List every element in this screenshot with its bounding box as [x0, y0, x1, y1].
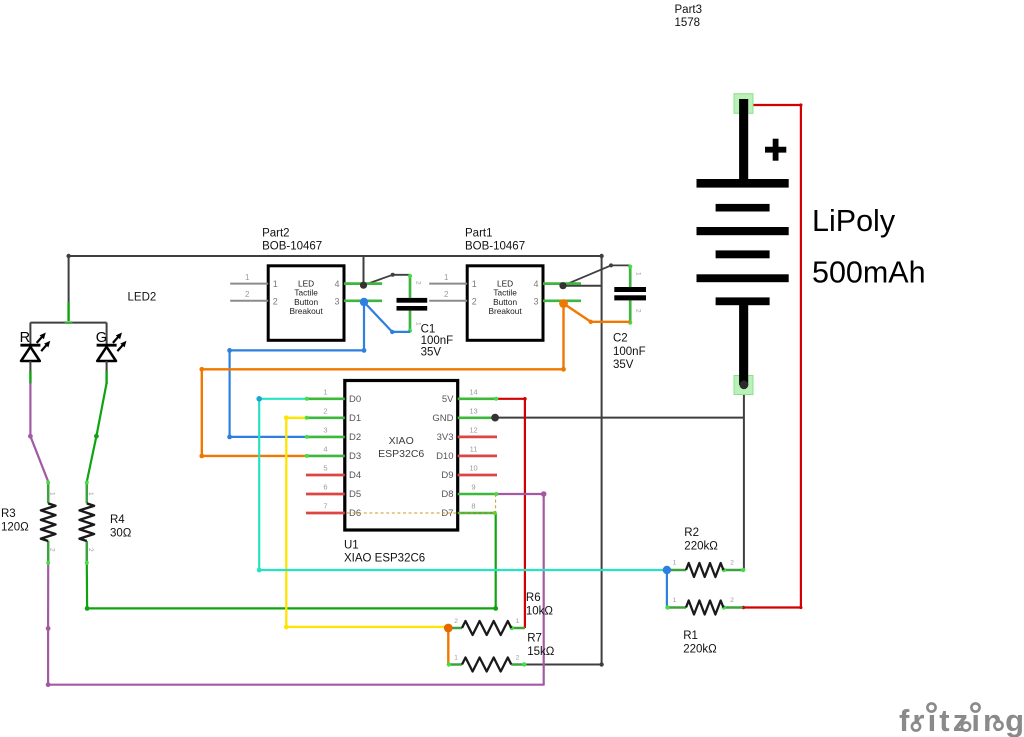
svg-text:R4: R4 [110, 514, 125, 526]
wire battery minus down to R2 pin2 [743, 385, 745, 570]
junction GND wire [491, 414, 499, 422]
pin 4 D3 [305, 444, 361, 462]
svg-text:2: 2 [454, 618, 458, 625]
battery BAT1 positive pad [734, 94, 753, 114]
junction R2 pin1 blue [663, 566, 671, 574]
svg-text:D10: D10 [436, 451, 453, 462]
svg-text:D8: D8 [441, 489, 453, 500]
svg-text:2: 2 [730, 560, 734, 567]
svg-text:Part2: Part2 [262, 228, 290, 240]
svg-text:R1: R1 [683, 630, 698, 642]
wire LED G stub [106, 323, 108, 345]
junction cyan bend [256, 396, 262, 402]
svg-text:U1: U1 [344, 540, 359, 552]
svg-text:2: 2 [323, 406, 327, 415]
svg-text:4: 4 [533, 279, 538, 289]
svg-text:R6: R6 [526, 592, 541, 604]
resistor R1 [665, 597, 743, 615]
svg-text:15kΩ: 15kΩ [527, 646, 555, 658]
svg-text:Breakout: Breakout [488, 306, 522, 316]
svg-text:3: 3 [323, 425, 327, 434]
pin 6 D5 [306, 483, 361, 501]
LED G anode stub [106, 361, 108, 372]
svg-text:9: 9 [471, 483, 475, 492]
svg-text:2: 2 [730, 597, 734, 604]
svg-text:D7: D7 [441, 508, 453, 519]
svg-text:Breakout: Breakout [289, 306, 323, 316]
pin 14 5V [442, 387, 498, 405]
breakout Part1 BOB-10467 [429, 266, 581, 341]
svg-text:1578: 1578 [675, 17, 701, 29]
svg-text:8: 8 [471, 502, 475, 511]
svg-text:C1: C1 [421, 324, 436, 336]
svg-text:2: 2 [444, 290, 449, 299]
svg-text:30Ω: 30Ω [110, 528, 132, 540]
pin 3 D2 [305, 425, 361, 443]
svg-text:D3: D3 [349, 451, 361, 462]
svg-text:ESP32C6: ESP32C6 [378, 448, 424, 460]
svg-text:2: 2 [516, 655, 520, 662]
svg-text:D9: D9 [441, 470, 453, 481]
resistor R7 [447, 655, 527, 672]
svg-text:R7: R7 [527, 633, 542, 645]
svg-text:BOB-10467: BOB-10467 [262, 241, 322, 253]
wire battery plus red [743, 105, 801, 608]
LED2 red element R [20, 330, 51, 361]
wire D0 to R2 cyan [259, 399, 667, 570]
pin 11 D10 [436, 444, 497, 462]
svg-text:2: 2 [415, 281, 422, 285]
resistor R2 [667, 560, 746, 578]
battery bottom junction [740, 380, 749, 389]
svg-text:1: 1 [87, 492, 94, 496]
svg-text:2: 2 [472, 296, 477, 306]
svg-text:1: 1 [323, 387, 327, 396]
svg-text:10kΩ: 10kΩ [526, 606, 554, 618]
svg-text:fritzing: fritzing [899, 703, 1024, 737]
svg-text:500mAh: 500mAh [812, 256, 926, 290]
svg-text:5V: 5V [442, 394, 454, 405]
wire top rail [69, 255, 602, 257]
svg-text:6: 6 [323, 483, 327, 492]
svg-text:G: G [96, 330, 107, 346]
pin 1 D0 [305, 387, 361, 405]
svg-text:XIAO: XIAO [389, 435, 414, 447]
wire Part1 pin4 to rail [563, 285, 602, 287]
pin 5 D4 [306, 464, 361, 482]
svg-text:1: 1 [673, 597, 677, 604]
svg-text:2: 2 [273, 296, 278, 306]
svg-text:11: 11 [470, 444, 478, 453]
svg-text:3V3: 3V3 [437, 432, 454, 443]
svg-text:35V: 35V [421, 347, 442, 359]
pin 7 D6 [306, 502, 361, 520]
svg-text:2: 2 [635, 309, 642, 313]
battery plus sign [765, 147, 786, 153]
capacitor C1 [397, 274, 428, 333]
svg-text:Part1: Part1 [465, 228, 493, 240]
svg-text:14: 14 [469, 387, 477, 396]
wire Part2 pin4 to C1 pin2 [364, 275, 411, 285]
svg-text:1: 1 [673, 560, 677, 567]
wire 5V to R6 red [497, 399, 525, 628]
wire Part1 pin4 to C2 pin1 [563, 265, 630, 285]
wire LED2 crossbar [30, 322, 106, 324]
wire Part1 pin3 to C2 orange [564, 304, 631, 322]
svg-text:4: 4 [323, 444, 327, 453]
junction Part2 pin4 [360, 282, 367, 289]
resistor R6 [448, 618, 525, 635]
svg-text:1: 1 [273, 279, 278, 289]
svg-text:BOB-10467: BOB-10467 [465, 241, 525, 253]
pin 10 D9 [441, 464, 497, 482]
battery BAT1 negative pad [734, 376, 753, 395]
svg-text:2: 2 [49, 548, 56, 552]
resistor R3 [41, 481, 56, 565]
junction R6 pin2 [444, 624, 453, 633]
svg-text:1: 1 [454, 655, 458, 662]
svg-text:D5: D5 [349, 489, 361, 500]
svg-text:R: R [20, 330, 30, 346]
svg-text:120Ω: 120Ω [1, 522, 29, 534]
wire D1 to R6 yellow [286, 418, 448, 627]
pin 2 D1 [305, 406, 361, 424]
svg-text:35V: 35V [613, 359, 634, 371]
pin 8 D7 [441, 502, 496, 520]
wire Part1 pin3 to D3 orange [202, 304, 564, 456]
svg-text:12: 12 [469, 425, 477, 434]
wire Part2 pin3 to D2 blue [230, 302, 364, 437]
svg-text:10: 10 [469, 464, 477, 473]
LED2 green element G [96, 330, 127, 361]
svg-text:GND: GND [432, 413, 453, 424]
wire Part2 pin3 to C1 blue [364, 302, 410, 332]
wire R7 pin2 to rail [525, 664, 602, 666]
svg-text:220kΩ: 220kΩ [683, 644, 717, 656]
resistor R4 [80, 481, 95, 565]
junction Part1 pin3 orange [559, 299, 568, 308]
svg-text:7: 7 [323, 502, 327, 511]
svg-text:1: 1 [245, 273, 250, 282]
svg-text:220kΩ: 220kΩ [684, 541, 718, 553]
wire right vertical rail [601, 256, 603, 665]
svg-text:4: 4 [334, 279, 339, 289]
wire D8 to R3 purple loop [48, 494, 544, 685]
svg-text:D0: D0 [349, 394, 361, 405]
pin 12 3V3 [437, 425, 497, 443]
pin 9 D8 [441, 483, 498, 501]
svg-text:100nF: 100nF [613, 346, 646, 358]
wire GND to battery minus [495, 417, 744, 419]
svg-text:2: 2 [87, 548, 94, 552]
battery BAT1 symbol [739, 99, 748, 180]
svg-text:R3: R3 [1, 508, 16, 520]
capacitor C2 [614, 265, 646, 325]
svg-text:100nF: 100nF [421, 335, 454, 347]
svg-text:5: 5 [323, 464, 327, 473]
svg-text:D6: D6 [349, 508, 361, 519]
ratsnest D6 to D7 dashed [347, 512, 496, 514]
junction Part1 pin4 [559, 282, 566, 289]
wire LED R to R3 purple [30, 383, 48, 482]
svg-text:1: 1 [635, 272, 642, 276]
svg-text:Part3: Part3 [675, 4, 703, 16]
svg-text:1: 1 [472, 279, 477, 289]
svg-text:1: 1 [49, 492, 56, 496]
wire LED2 stem green segment [67, 302, 69, 321]
pin 13 GND [432, 406, 498, 424]
wire R2 pin1 to R1 pin1 blue [666, 570, 668, 608]
breakout Part2 BOB-10467 [230, 266, 382, 341]
wire LED R stub [29, 323, 31, 345]
wire R6 pin2 to R7 pin1 orange [447, 628, 449, 665]
svg-text:LiPoly: LiPoly [812, 204, 896, 238]
svg-text:1: 1 [516, 618, 520, 625]
svg-text:XIAO ESP32C6: XIAO ESP32C6 [344, 553, 425, 565]
svg-text:D1: D1 [349, 413, 361, 424]
svg-text:D4: D4 [349, 470, 361, 481]
wire LED2 stem [68, 256, 70, 303]
fritzing watermark [899, 703, 1024, 737]
svg-text:R2: R2 [684, 527, 699, 539]
svg-text:C2: C2 [613, 333, 628, 345]
svg-text:D2: D2 [349, 432, 361, 443]
LED R anode stub [29, 361, 31, 372]
wire LED G to R4 green [87, 383, 107, 482]
svg-text:1: 1 [444, 273, 449, 282]
svg-text:2: 2 [245, 290, 250, 299]
wire R4 to D7 green [87, 513, 496, 608]
junction Part2 pin3 blue [360, 298, 368, 306]
svg-text:13: 13 [469, 406, 477, 415]
IC U1 XIAO ESP32C6 body [345, 381, 458, 531]
svg-text:3: 3 [533, 296, 538, 306]
svg-text:3: 3 [334, 296, 339, 306]
wire Part2 pin4 riser [363, 256, 365, 285]
svg-text:LED2: LED2 [128, 292, 157, 304]
